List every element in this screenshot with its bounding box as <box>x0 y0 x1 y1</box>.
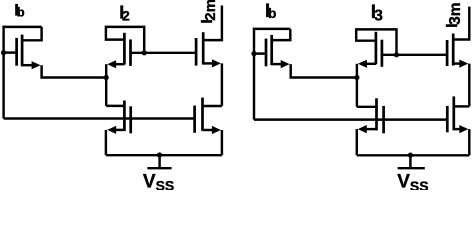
wire top rail Ib (right circuit) <box>253 28 290 30</box>
transistor M6 source lead <box>272 63 283 65</box>
junction dot M1 gate on rail <box>1 50 6 55</box>
junction dot M2 gate diode <box>142 50 147 55</box>
transistor M1 channel bar <box>21 35 24 67</box>
wire M4 source to bottom rail <box>105 130 107 155</box>
wire bottom rail right circuit <box>357 154 470 156</box>
junction dot ground tap <box>157 152 162 157</box>
transistor M10 drain lead <box>454 105 470 107</box>
svg-text:Ib: Ib <box>14 0 25 19</box>
wire M5 source to bottom rail <box>221 130 223 155</box>
transistor M7 channel bar <box>375 32 378 65</box>
transistor M5 drain lead <box>203 105 222 107</box>
wire M10 source to bottom rail <box>468 129 470 155</box>
transistor M4 source arrow <box>107 126 116 134</box>
junction dot ground tap right <box>408 153 413 158</box>
ground stem VSS <box>158 155 160 168</box>
transistor M9 gate bar <box>382 106 385 133</box>
transistor M8 source arrow <box>459 60 468 68</box>
transistor M4 gate bar <box>129 106 132 133</box>
transistor M7 source lead <box>366 63 376 65</box>
transistor M7 source arrow <box>358 60 367 68</box>
wire left gate rail <box>2 26 4 119</box>
wire top rail Ib (left circuit) <box>2 26 41 28</box>
transistor M6 gate bar <box>265 39 268 67</box>
transistor M8 drain lead and I3m stub <box>453 7 469 40</box>
transistor M3 source arrow <box>212 59 221 67</box>
wire bottom rail left circuit <box>106 154 222 156</box>
transistor M2 source arrow <box>107 60 116 68</box>
wire M1 source to node A <box>42 65 107 77</box>
transistor M7 drain lead and I3 rail and diode connection <box>356 29 396 54</box>
wire gate bus right circuit <box>254 118 446 120</box>
junction dot node A <box>104 75 109 80</box>
transistor M2 drain lead and I2 rail and diode connection <box>106 27 144 53</box>
svg-text:VSS: VSS <box>397 172 428 190</box>
transistor M6 source arrow <box>281 60 290 68</box>
transistor M5 source lead <box>203 129 214 131</box>
transistor M5 channel bar <box>201 98 204 131</box>
wire M9 source to bottom rail <box>356 129 358 155</box>
junction dot M6 gate on rail <box>251 51 256 56</box>
transistor M2 channel bar <box>123 33 126 65</box>
svg-text:Ib: Ib <box>265 1 277 22</box>
wire left gate rail right circuit <box>253 28 255 120</box>
wire cascode right column of right circuit <box>468 64 470 107</box>
wire gate bus left circuit <box>4 117 195 119</box>
transistor M10 source arrow <box>459 125 468 133</box>
transistor M3 channel bar <box>202 32 205 64</box>
transistor M1 drain lead <box>22 27 41 40</box>
transistor M9 channel bar <box>375 98 378 130</box>
transistor M1 gate bar <box>15 38 18 66</box>
transistor M9 source arrow <box>358 125 367 133</box>
transistor M5 gate bar <box>193 106 196 133</box>
transistor M2 source lead <box>114 63 124 65</box>
transistor M8 source lead <box>453 62 461 64</box>
svg-text:VSS: VSS <box>143 171 174 190</box>
transistor M3 drain lead and I2m stub <box>203 6 222 41</box>
transistor M8 gate bar <box>446 40 449 66</box>
svg-text:I2: I2 <box>119 3 130 24</box>
wire gate M2 to gate M3 <box>131 52 196 54</box>
svg-text:I2m: I2m <box>199 0 219 24</box>
transistor M9 drain lead <box>357 106 377 108</box>
svg-text:I3: I3 <box>371 2 383 25</box>
svg-text:I3m: I3m <box>444 2 464 27</box>
wire M6 source to node B <box>291 64 357 77</box>
wire cascode middle column <box>105 64 107 106</box>
transistor M6 channel bar <box>270 35 273 65</box>
ground bar VSS <box>147 167 171 169</box>
transistor M4 channel bar <box>123 101 126 132</box>
wire cascode right column of left circuit <box>221 63 223 106</box>
transistor M1 source arrow <box>32 61 41 69</box>
ground bar VSS right <box>398 167 425 169</box>
ground stem VSS right <box>409 155 411 168</box>
transistor M7 gate bar <box>381 40 384 67</box>
transistor M4 drain lead <box>106 105 124 107</box>
transistor M6 gate lead <box>254 52 265 54</box>
transistor M5 source arrow <box>212 126 221 134</box>
transistor M1 source lead <box>22 64 34 66</box>
transistor M6 drain lead <box>272 29 291 40</box>
transistor M9 source lead <box>366 128 377 130</box>
junction dot M7 gate diode <box>394 52 399 57</box>
transistor M3 source lead <box>203 62 213 64</box>
wire cascode middle column right circuit <box>356 64 358 107</box>
transistor M4 source lead <box>114 129 124 131</box>
transistor M3 gate bar <box>195 38 198 66</box>
junction dot node B <box>354 75 359 80</box>
transistor M10 channel bar <box>452 96 455 130</box>
transistor M10 source lead <box>454 128 461 130</box>
transistor M2 gate bar <box>129 39 132 66</box>
transistor M1 gate lead <box>4 51 16 53</box>
transistor M8 channel bar <box>452 34 455 66</box>
wire gate M7 to gate M8 <box>382 54 446 56</box>
transistor M10 gate bar <box>446 106 449 132</box>
